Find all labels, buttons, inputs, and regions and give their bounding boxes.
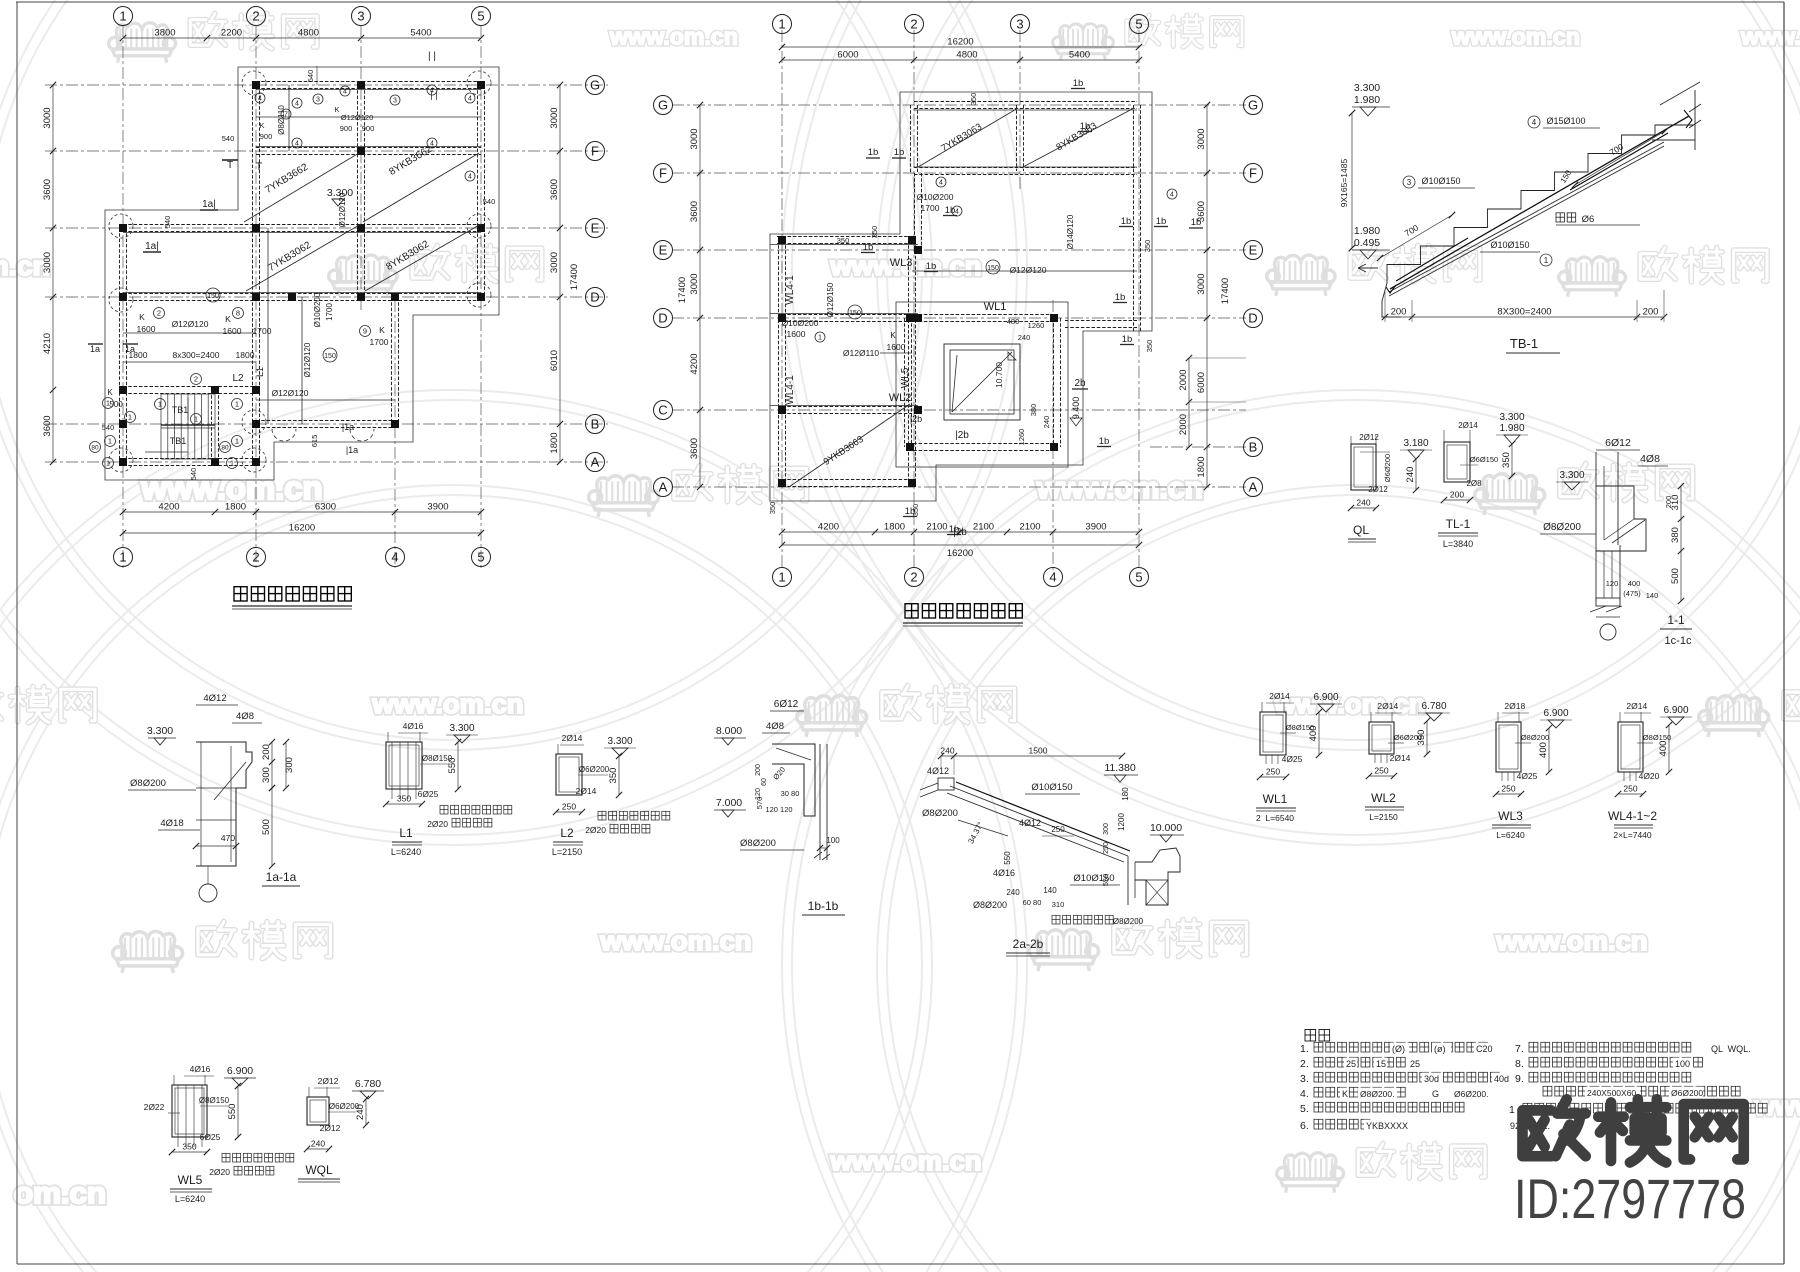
svg-text:1b: 1b (1122, 334, 1133, 345)
svg-text:3: 3 (316, 97, 320, 104)
watermark logo text (1127, 15, 1159, 44)
svg-text:www.om.cn: www.om.cn (609, 24, 738, 50)
svg-text:Ø8Ø200: Ø8Ø200 (1543, 522, 1581, 533)
TB-1 label per-step O6 (1556, 213, 1565, 222)
svg-text:4: 4 (295, 101, 299, 108)
svg-text:5: 5 (1135, 570, 1142, 585)
svg-text:1.980: 1.980 (1499, 423, 1524, 434)
svg-text:1260: 1260 (1017, 429, 1026, 446)
1-1 right dims (1680, 486, 1682, 601)
mid plan circled 4 refs (936, 177, 946, 187)
svg-text:QL: QL (1353, 523, 1369, 537)
svg-text:3000: 3000 (1196, 128, 1207, 149)
svg-text:1: 1 (1509, 1104, 1515, 1116)
svg-text:16200: 16200 (947, 37, 973, 48)
svg-text:8X300=2400: 8X300=2400 (1497, 307, 1551, 318)
svg-text:D: D (590, 290, 599, 305)
svg-text:www.om.cn: www.om.cn (829, 1146, 981, 1176)
left plan columns (252, 81, 260, 89)
watermark logo sofa (1559, 257, 1626, 297)
svg-text:4200: 4200 (818, 522, 839, 533)
TB-1 arrow left (1358, 264, 1378, 272)
svg-text:8x300=2400: 8x300=2400 (172, 350, 219, 360)
svg-text:3000: 3000 (42, 252, 53, 273)
svg-text:Ø12Ø150: Ø12Ø150 (826, 282, 835, 317)
svg-text:300: 300 (284, 757, 295, 773)
svg-text:2Ø14: 2Ø14 (1626, 701, 1647, 711)
svg-text:1: 1 (108, 437, 112, 446)
watermark logo text (882, 686, 919, 719)
mid plan center square outer (896, 302, 1068, 467)
watermark logo sofa (109, 23, 176, 63)
watermark logo text (1640, 248, 1675, 280)
svg-text:150: 150 (987, 265, 999, 272)
mid plan left grid letters (654, 96, 673, 115)
left plan wall E row (123, 224, 481, 226)
svg-text:4: 4 (343, 89, 347, 96)
svg-text:T: T (256, 161, 263, 173)
svg-text:0.495: 0.495 (1354, 237, 1380, 249)
svg-text:2100: 2100 (973, 522, 994, 533)
left plan corner column circles (242, 71, 266, 95)
svg-text:4Ø8: 4Ø8 (766, 721, 784, 732)
svg-text:350: 350 (911, 504, 920, 517)
svg-text:3.180: 3.180 (1403, 438, 1428, 449)
svg-text:E: E (1249, 243, 1258, 258)
1-1 inner diagonal (1612, 520, 1645, 543)
mid plan band edge G (914, 109, 1137, 111)
svg-text:1: 1 (194, 415, 198, 424)
svg-text:TB1: TB1 (172, 405, 189, 415)
svg-text:2Ø14: 2Ø14 (1458, 421, 1478, 430)
svg-text:4: 4 (258, 96, 262, 103)
svg-text:3600: 3600 (689, 201, 700, 222)
svg-text:1800: 1800 (225, 502, 246, 513)
svg-text:L=2150: L=2150 (552, 847, 582, 857)
svg-text:2 L=6540: 2 L=6540 (1256, 813, 1294, 823)
watermark logo sofa (1475, 473, 1545, 515)
svg-text:8.000: 8.000 (716, 725, 742, 737)
watermark logo sofa (1029, 929, 1099, 971)
svg-text:1600: 1600 (223, 326, 242, 336)
svg-text:240: 240 (1405, 467, 1416, 483)
svg-text:500: 500 (261, 819, 272, 835)
watermark circle (782, 390, 1800, 1272)
WL5 beam section detail (172, 1085, 207, 1137)
2a-2b note fake text (1052, 915, 1060, 924)
svg-text:www.om.cn: www.om.cn (1495, 926, 1647, 956)
svg-text:200: 200 (1391, 307, 1407, 318)
svg-text:40d: 40d (1494, 1074, 1509, 1084)
svg-text:C: C (658, 403, 667, 418)
svg-text:380: 380 (1029, 404, 1038, 417)
svg-text:2000: 2000 (1178, 414, 1189, 435)
svg-text:A: A (659, 480, 668, 495)
svg-text:180: 180 (1121, 787, 1130, 801)
left plan diagonal beam 8YKB3662 (363, 153, 479, 222)
TB-1 break symbol top right (1689, 90, 1701, 150)
left plan beam line vertical (301, 297, 303, 424)
svg-text:K: K (259, 121, 264, 130)
svg-text:Ø12Ø120: Ø12Ø120 (341, 113, 374, 122)
svg-text:4800: 4800 (298, 28, 319, 39)
svg-text:1b: 1b (1115, 292, 1126, 303)
svg-text:900: 900 (260, 132, 273, 141)
1a-1a bottom circle (199, 884, 217, 902)
svg-text:9.400: 9.400 (1071, 397, 1081, 420)
svg-text:150: 150 (207, 293, 219, 300)
mid plan wall mid-left (914, 173, 916, 250)
left plan wall axis5 (477, 85, 479, 297)
left plan wall G row (256, 81, 481, 83)
svg-text:6000: 6000 (837, 50, 858, 61)
svg-text:B: B (591, 417, 600, 432)
left plan wall D row (123, 293, 481, 295)
svg-text:5400: 5400 (1069, 50, 1090, 61)
left plan band edge F (256, 146, 481, 148)
svg-text:4: 4 (1532, 118, 1537, 127)
TB-1 label O15@100 (1528, 116, 1540, 128)
svg-text:2Ø20: 2Ø20 (585, 825, 606, 835)
mid plan center square wall right (1053, 318, 1055, 447)
1-1 bottom circle (1600, 624, 1616, 640)
svg-text:1800: 1800 (1196, 456, 1207, 477)
svg-text:www.om.cn: www.om.cn (1451, 24, 1580, 50)
WL5 note (222, 1153, 230, 1162)
svg-text:615: 615 (310, 435, 319, 448)
svg-text:400: 400 (1658, 741, 1669, 757)
svg-text:2Ø22: 2Ø22 (144, 1102, 165, 1112)
svg-text:F: F (659, 166, 667, 181)
1-1 lower shaft (1595, 551, 1597, 601)
svg-text:WL4-1: WL4-1 (785, 375, 796, 405)
svg-text:4Ø25: 4Ø25 (1282, 754, 1303, 764)
left plan wall F row (256, 147, 481, 149)
mid plan wall left top (910, 105, 912, 173)
mid plan wall left block right (908, 240, 910, 483)
svg-text:(Ø): (Ø) (1392, 1044, 1405, 1054)
svg-text:L1: L1 (399, 826, 413, 840)
mid plan band edge E left (770, 244, 918, 246)
svg-text:2: 2 (910, 17, 917, 32)
watermark logo text (1784, 686, 1800, 719)
svg-text:200: 200 (1664, 496, 1673, 509)
L2 dim 350 (618, 756, 620, 795)
svg-text:1b: 1b (1073, 78, 1084, 89)
svg-text:www.om.cn: www.om.cn (1036, 472, 1203, 505)
TB-1 top landing lines (1660, 82, 1700, 105)
svg-text:1800: 1800 (549, 432, 560, 453)
svg-text:K: K (225, 314, 231, 324)
svg-text:240: 240 (1018, 333, 1031, 342)
mid plan top grid circles (773, 15, 792, 34)
svg-text:K: K (107, 388, 113, 397)
notes title shuoming (1305, 1030, 1316, 1042)
svg-text:WL5: WL5 (178, 1173, 203, 1187)
mid plan diagonal 8YKB3063 (1023, 108, 1134, 167)
svg-text:WL4-1~2: WL4-1~2 (1608, 809, 1657, 823)
1b-1b body (772, 744, 815, 816)
svg-text:3000: 3000 (689, 128, 700, 149)
svg-text:500: 500 (109, 400, 123, 409)
TB-1 steps outline (1387, 135, 1655, 283)
svg-text:250: 250 (562, 802, 576, 812)
svg-text:200: 200 (261, 744, 272, 760)
svg-text:4Ø25: 4Ø25 (1517, 771, 1538, 781)
svg-text:3: 3 (1016, 17, 1023, 32)
svg-text:3000: 3000 (689, 273, 700, 294)
svg-text:4200: 4200 (689, 353, 700, 374)
svg-text:6Ø25: 6Ø25 (418, 789, 439, 799)
svg-text:350: 350 (1143, 240, 1152, 253)
left plan circled refs rooms (154, 308, 165, 319)
mid plan band edge F (914, 166, 1137, 168)
svg-text:250: 250 (1501, 784, 1515, 794)
svg-text:K: K (139, 312, 145, 322)
svg-text:1a: 1a (90, 344, 100, 354)
svg-text:L=2150: L=2150 (1369, 812, 1398, 822)
left plan oval 150 b (323, 348, 337, 362)
mid plan right grid letters (1244, 96, 1263, 115)
left plan wall axis2 (252, 85, 254, 228)
left plan circled refs top block (255, 93, 265, 103)
svg-text:TB1: TB1 (170, 436, 187, 446)
svg-text:1.: 1. (1300, 1043, 1309, 1055)
svg-text:200: 200 (1643, 307, 1659, 318)
watermark logo text (1114, 920, 1151, 953)
svg-text:1b: 1b (926, 261, 937, 272)
svg-text:10.700: 10.700 (994, 362, 1004, 388)
svg-text:4: 4 (295, 141, 299, 148)
WQL dim 240 (365, 1099, 367, 1125)
L2 beam section detail (556, 754, 582, 795)
svg-text:2Ø14: 2Ø14 (1390, 753, 1411, 763)
svg-text:3000: 3000 (549, 107, 560, 128)
svg-text:www.om.cn: www.om.cn (1740, 24, 1800, 50)
svg-text:G: G (1248, 98, 1258, 113)
svg-text:Ø8Ø150: Ø8Ø150 (422, 754, 453, 763)
1a-1a right dims (271, 742, 273, 788)
svg-text:17400: 17400 (1220, 278, 1231, 304)
svg-text:Ø12Ø110: Ø12Ø110 (843, 348, 880, 358)
svg-text:1: 1 (106, 459, 110, 468)
svg-text:WL1: WL1 (1263, 792, 1288, 806)
svg-text:1: 1 (158, 400, 162, 409)
mid plan wall A row left block (782, 479, 912, 481)
L2 dim 250 (556, 811, 582, 813)
svg-text:15: 15 (1376, 1059, 1386, 1069)
mid plan outer boundary (770, 92, 1152, 501)
svg-text:120: 120 (1606, 579, 1619, 588)
svg-text:3: 3 (1407, 178, 1412, 187)
svg-text:8.: 8. (1515, 1058, 1524, 1070)
left plan left dimension column (52, 85, 54, 462)
svg-text:C20: C20 (1476, 1044, 1493, 1054)
left plan circled refs stairs (103, 398, 114, 409)
svg-text:1b: 1b (894, 147, 905, 158)
svg-text:2: 2 (194, 375, 198, 384)
svg-text:WL4-1: WL4-1 (785, 275, 796, 305)
svg-text:3600: 3600 (549, 179, 560, 200)
svg-text:WQL: WQL (305, 1163, 333, 1177)
svg-text:Ø10Ø150: Ø10Ø150 (1031, 782, 1072, 793)
svg-text:Ø8Ø200: Ø8Ø200 (973, 900, 1007, 910)
svg-text:2Ø8: 2Ø8 (1466, 479, 1482, 488)
svg-text:www.om.cn: www.om.cn (1273, 689, 1425, 719)
svg-text:Ø6Ø200: Ø6Ø200 (1383, 454, 1392, 482)
svg-text:3000: 3000 (42, 107, 53, 128)
svg-text:25: 25 (1410, 1059, 1420, 1069)
svg-text:1: 1 (235, 437, 239, 446)
svg-text:400: 400 (1628, 579, 1641, 588)
svg-text:www.: www. (1754, 1091, 1800, 1121)
svg-text:500: 500 (1670, 568, 1681, 584)
mid plan grid lines (672, 104, 1246, 106)
svg-text:350: 350 (837, 236, 850, 245)
svg-text:5.: 5. (1300, 1103, 1309, 1115)
svg-text:7.000: 7.000 (716, 797, 742, 809)
left plan title (234, 587, 247, 601)
svg-text:Ø10Ø200: Ø10Ø200 (782, 318, 819, 328)
svg-text:550: 550 (1101, 874, 1110, 887)
svg-text:6300: 6300 (315, 502, 336, 513)
svg-text:1: 1 (1544, 256, 1549, 265)
svg-text:4: 4 (391, 550, 398, 565)
svg-text:1700: 1700 (253, 326, 272, 336)
left plan band edge G (256, 89, 481, 91)
svg-text:2Ø20: 2Ø20 (427, 819, 448, 829)
svg-text:Ø12Ø120: Ø12Ø120 (272, 388, 309, 398)
WL4-1~2 beam section detail (1618, 722, 1643, 772)
left plan top dimension row (123, 37, 481, 39)
svg-text:25: 25 (1346, 1059, 1356, 1069)
mid plan inner right dims (1188, 358, 1190, 447)
1-1 upper shaft (1595, 452, 1597, 551)
svg-text:900: 900 (362, 124, 375, 133)
svg-text:Ø14Ø120: Ø14Ø120 (1066, 214, 1075, 249)
watermark logo sofa (589, 475, 659, 517)
svg-text:7.: 7. (1515, 1043, 1524, 1055)
svg-text:6Ø12: 6Ø12 (1605, 437, 1631, 449)
svg-text:4Ø8: 4Ø8 (236, 711, 254, 722)
svg-text:3.300: 3.300 (607, 736, 632, 747)
svg-text:A: A (1249, 480, 1258, 495)
svg-text:Ø12Ø120: Ø12Ø120 (1010, 265, 1047, 275)
svg-text:240: 240 (1356, 498, 1370, 508)
svg-text:5: 5 (477, 9, 484, 24)
svg-text:1200: 1200 (1117, 813, 1126, 831)
mid plan wall E row left block (777, 236, 912, 238)
svg-text:4: 4 (1170, 192, 1174, 199)
svg-text:4Ø16: 4Ø16 (993, 868, 1015, 878)
svg-text:4200: 4200 (158, 502, 179, 513)
L1 hangers below (391, 789, 393, 799)
svg-text:9X165=1485: 9X165=1485 (1339, 159, 1349, 208)
mid plan bottom grid circles (773, 568, 792, 587)
svg-text:Ø10Ø200: Ø10Ø200 (917, 192, 954, 202)
svg-text:Ø15Ø100: Ø15Ø100 (1546, 116, 1585, 126)
svg-text:350: 350 (870, 226, 879, 239)
WL5 dim 350 (172, 1151, 207, 1153)
svg-text:150: 150 (324, 353, 336, 360)
svg-text:480: 480 (1007, 317, 1020, 326)
mid plan center square wall left (904, 318, 906, 447)
watermark logo text (412, 246, 448, 278)
svg-text:540: 540 (189, 468, 198, 481)
svg-text:K: K (1342, 1089, 1348, 1099)
TB-1 rebar top hook (1684, 110, 1692, 128)
svg-text:|2b: |2b (910, 414, 922, 424)
svg-text:L2: L2 (232, 373, 244, 384)
mid plan title (905, 604, 918, 618)
TB-1 slab soffit (1389, 142, 1664, 292)
svg-text:E: E (659, 243, 668, 258)
2a-2b wall below (1127, 856, 1129, 905)
svg-text:1600: 1600 (787, 329, 806, 339)
svg-text:Ø12Ø120: Ø12Ø120 (172, 319, 209, 329)
svg-text:1.980: 1.980 (1354, 225, 1380, 237)
svg-text:4Ø8: 4Ø8 (1640, 453, 1660, 465)
svg-text:Ø8Ø150: Ø8Ø150 (199, 1096, 230, 1105)
svg-text:1260: 1260 (1028, 321, 1045, 330)
mid plan oval 150 left (848, 305, 862, 319)
svg-text:350: 350 (969, 93, 978, 106)
svg-text:Ø8Ø200.: Ø8Ø200. (1360, 1089, 1395, 1099)
svg-text:3900: 3900 (427, 502, 448, 513)
svg-text:4Ø12: 4Ø12 (927, 766, 949, 776)
svg-text:60: 60 (761, 778, 768, 786)
svg-text:1b: 1b (863, 242, 874, 253)
svg-text:350: 350 (182, 1142, 196, 1152)
svg-text:2100: 2100 (1019, 522, 1040, 533)
svg-text:E: E (591, 221, 600, 236)
svg-text:240: 240 (940, 746, 954, 756)
svg-text:QL WQL.: QL WQL. (1711, 1044, 1751, 1054)
mid plan right dim column (1206, 105, 1208, 487)
svg-text:Ø6Ø150: Ø6Ø150 (1470, 455, 1498, 464)
left plan right dimension column (559, 85, 561, 462)
svg-text:2Ø14: 2Ø14 (562, 733, 583, 743)
svg-text:4Ø20: 4Ø20 (1639, 771, 1660, 781)
svg-text:120 120: 120 120 (765, 805, 792, 814)
watermark logo sofa (797, 695, 867, 737)
mid plan top dim row (782, 59, 1139, 61)
svg-text:2b: 2b (1074, 378, 1086, 389)
left plan right grid letter circles (586, 76, 605, 95)
svg-text:6.900: 6.900 (1543, 708, 1568, 719)
left plan beam L1 vertical (267, 228, 269, 297)
svg-text:L=6240: L=6240 (1496, 830, 1525, 840)
svg-text:(ø): (ø) (1434, 1044, 1446, 1054)
svg-text:1c-1c: 1c-1c (1665, 635, 1692, 647)
svg-text:6.780: 6.780 (355, 1078, 381, 1090)
svg-text:6.900: 6.900 (1313, 692, 1338, 703)
svg-text:1500: 1500 (1029, 746, 1048, 756)
L1 dim 550 (457, 742, 459, 789)
left plan bottom total dimension (123, 532, 481, 534)
svg-text:2Ø14: 2Ø14 (1269, 691, 1290, 701)
svg-text:200: 200 (1450, 490, 1464, 500)
svg-text:3.300: 3.300 (1499, 412, 1524, 423)
big watermark text oumowang (1522, 1099, 1585, 1156)
mid plan left dim column (699, 105, 701, 487)
svg-text:WL3: WL3 (1498, 809, 1523, 823)
svg-text:4210: 4210 (42, 333, 53, 354)
mid plan inner square (944, 344, 1020, 420)
mid plan wall left block left (778, 240, 780, 483)
svg-text:3.300: 3.300 (147, 725, 173, 737)
svg-text:540: 540 (483, 197, 496, 206)
